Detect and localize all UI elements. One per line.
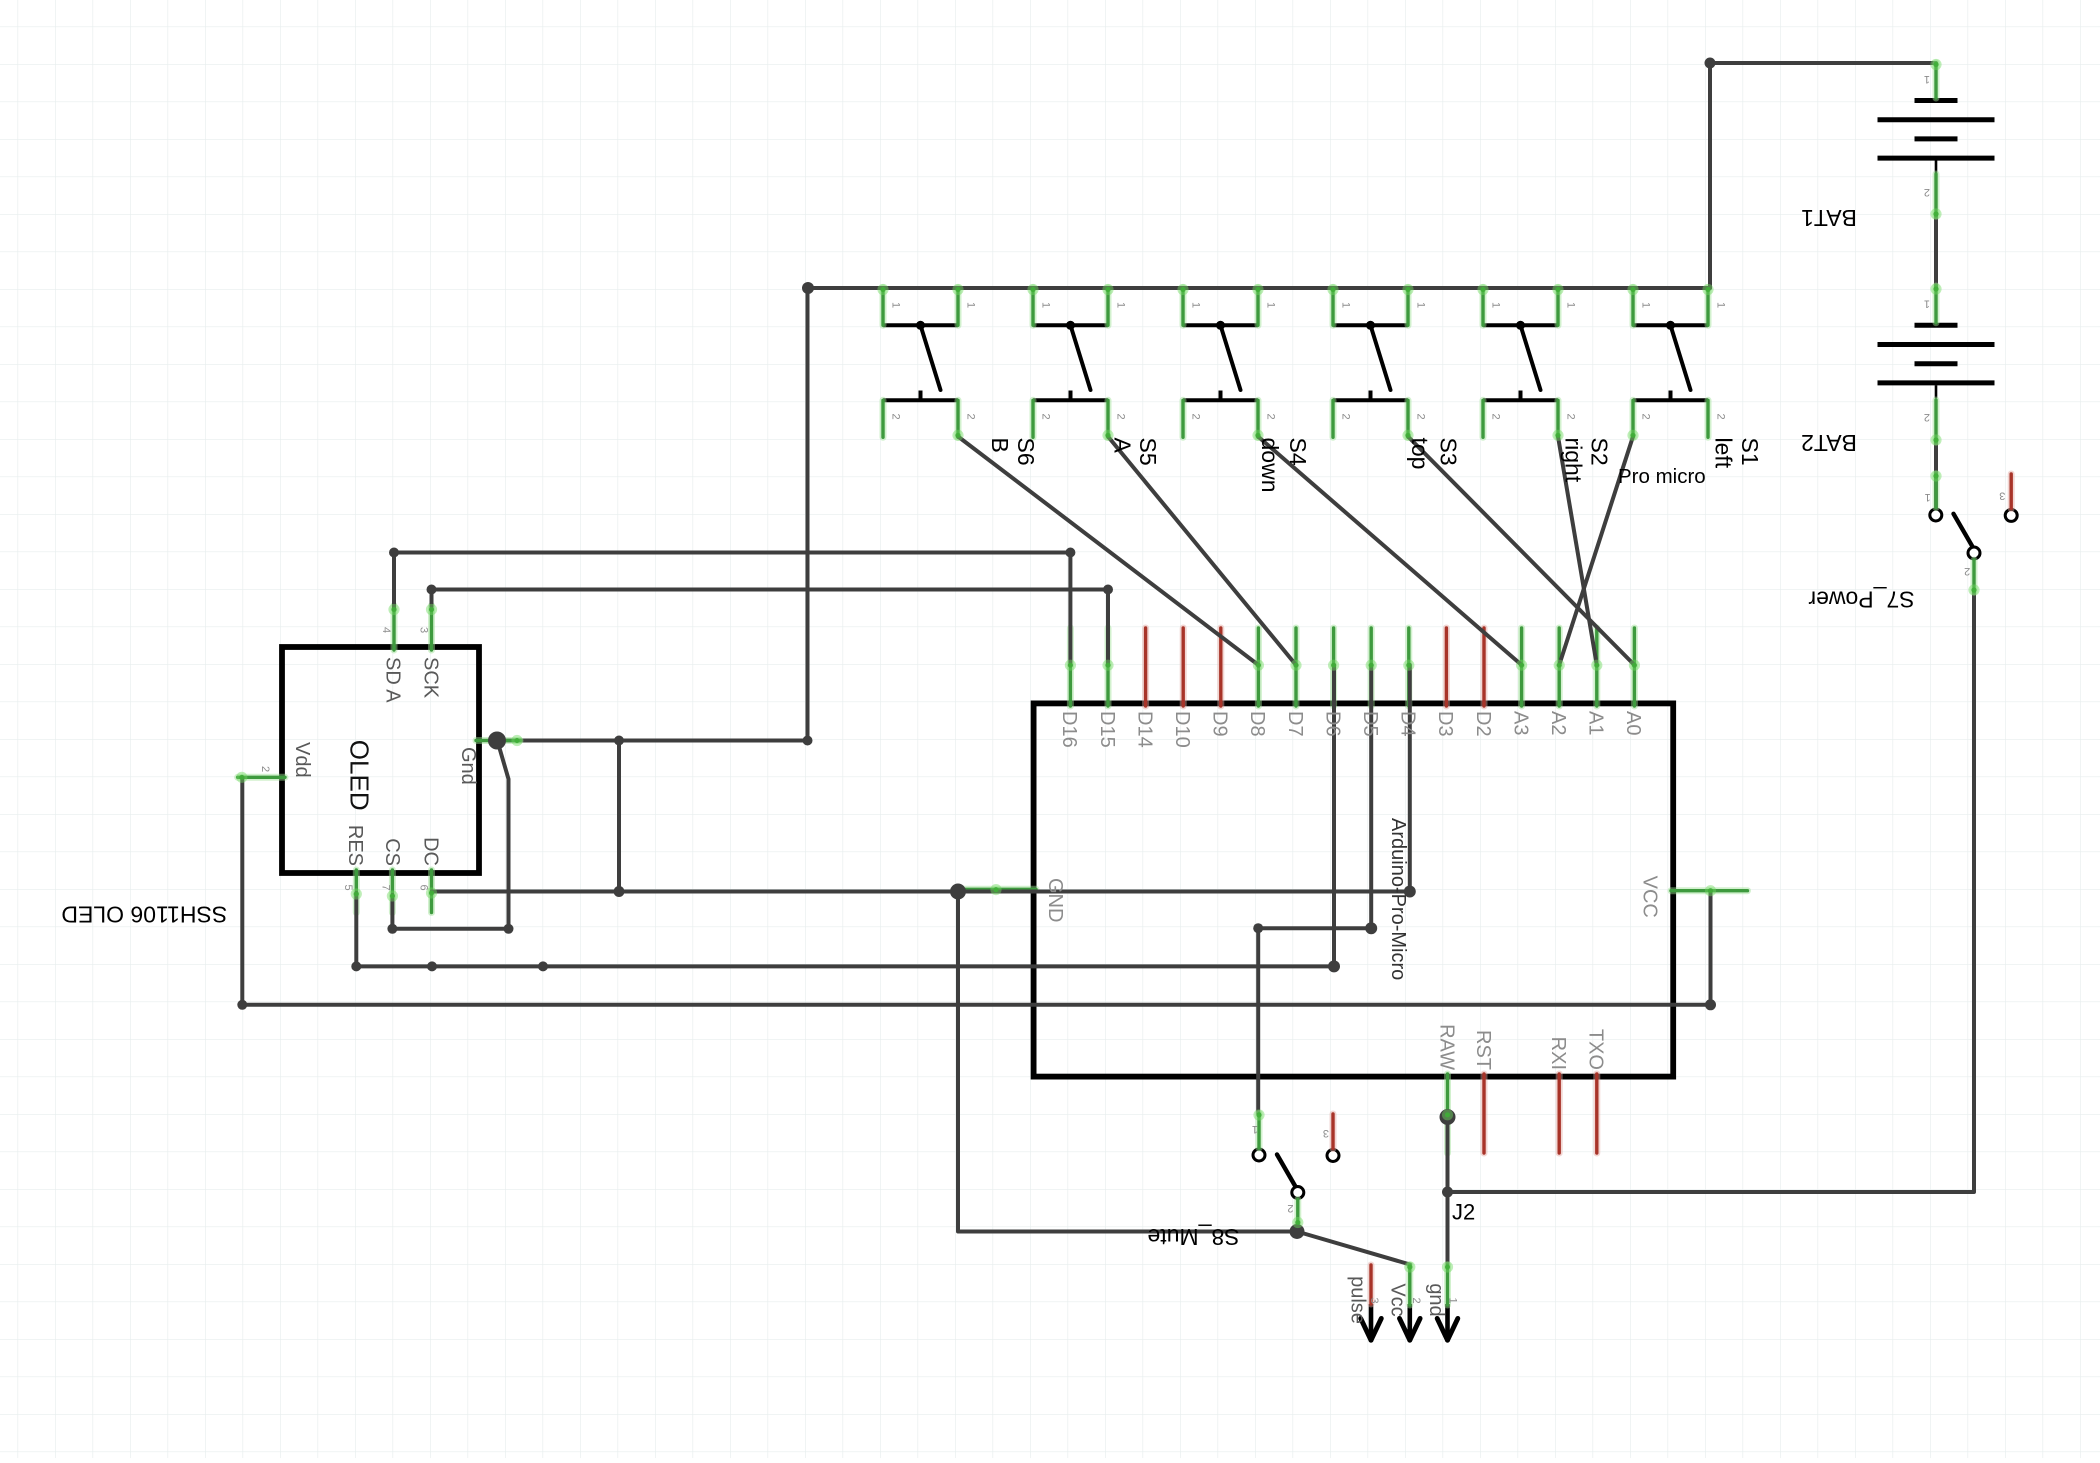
OLED pin SCK terminal glow [426,604,437,615]
pushbutton S5 pin 2 right [1105,400,1112,437]
svg-text:S1: S1 [1737,438,1763,466]
pushbutton S5 pin 2 right terminal glow [1102,430,1113,441]
pushbutton S2 pin 2 left [1480,400,1487,437]
junction: RAW pin node [1440,1109,1456,1125]
Arduino pin D5 [1368,628,1375,706]
svg-text:S2: S2 [1586,438,1612,466]
OLED pin CS terminal glow [387,890,398,901]
svg-text:2: 2 [1190,414,1202,420]
svg-text:D14: D14 [1133,711,1155,748]
svg-text:S4: S4 [1285,438,1311,466]
svg-text:1: 1 [1924,73,1930,85]
svg-text:5: 5 [342,885,354,891]
OLED pin SCK [428,606,435,651]
switch S7 pin 2 terminal glow [1968,584,1979,595]
Arduino pin A2 terminal glow [1554,660,1565,671]
Arduino pin D16 terminal glow [1065,660,1076,671]
svg-text:D7: D7 [1284,711,1306,737]
svg-text:D6: D6 [1321,711,1343,737]
pushbutton S3 pin 2 right [1405,400,1412,437]
svg-text:7: 7 [380,885,392,891]
svg-text:BAT2: BAT2 [1801,430,1857,456]
switch S8 pin 1 terminal glow [1253,1109,1264,1120]
Arduino pin GND [959,886,1036,893]
svg-text:2: 2 [1410,1297,1422,1303]
pushbutton S3 pin 1 right terminal glow [1402,284,1413,295]
svg-text:1: 1 [1040,302,1052,308]
wire: S3 pin2 to A0 [1408,437,1634,666]
pushbutton S4 pin 2 right [1255,400,1262,437]
Arduino pin D15 [1105,628,1112,706]
svg-text:left: left [1711,438,1737,469]
Arduino pin D7 [1293,628,1300,706]
pushbutton S1 pin 1 right [1705,288,1712,326]
OLED pin Gnd terminal glow [511,735,522,746]
pushbutton S6 body [883,321,958,401]
svg-text:D16: D16 [1058,711,1080,748]
wire: D4 vertical to GND net [1408,665,1412,892]
junction: D6 meets RES wire [1328,960,1340,972]
OLED pin RES terminal glow [351,888,362,899]
wire: OLED Vdd to VCC net [242,777,1710,1005]
svg-text:1: 1 [1715,302,1727,308]
svg-text:D3: D3 [1434,711,1456,737]
pushbutton S2 pin 1 right [1555,288,1562,326]
pushbutton S3 pin 2 left [1330,400,1337,437]
wire: S5 pin2 to D7 [1108,437,1296,666]
svg-text:A0: A0 [1622,711,1644,735]
svg-text:S8_Mute: S8_Mute [1147,1224,1239,1250]
OLED pin Gnd [476,737,520,744]
svg-text:1: 1 [1252,1123,1258,1135]
battery BAT2 pin 1 [1933,286,1940,323]
pushbutton S5 pin 1 left [1030,288,1037,326]
pushbutton S5 pin 1 right [1105,288,1112,326]
Arduino pin D5 terminal glow [1366,660,1377,671]
svg-text:2: 2 [1415,414,1427,420]
battery BAT1 pin 2 terminal glow [1930,208,1941,219]
switch S7_Power body [1930,509,2017,559]
pushbutton S6 pin 1 left [880,288,887,326]
wire: BAT2 pin2 to S7 pin1 [1934,442,1938,507]
Arduino pin D15 terminal glow [1102,660,1113,671]
pushbutton S2 pin 2 right [1555,400,1562,437]
svg-text:1: 1 [1640,302,1652,308]
svg-text:GND: GND [1044,878,1066,922]
pushbutton S3 pin 1 left [1330,288,1337,326]
pushbutton S3 pin 1 right [1405,288,1412,326]
wire: GND junction down-left to S8 pin2 junction [958,892,1297,1232]
Arduino pin A0 [1631,628,1638,706]
pushbutton S6 pin 1 left terminal glow [877,284,888,295]
pushbutton S3 pin 1 left terminal glow [1327,284,1338,295]
wire: D5 to S8 pin1 [1258,665,1371,1114]
wire: OLED RES to D6 [356,893,1334,966]
svg-text:S5: S5 [1135,438,1161,466]
OLED pin DC [428,870,435,913]
svg-text:D9: D9 [1209,711,1231,737]
Arduino pin D6 [1330,628,1337,706]
bend: RES wire point 1 [427,961,437,971]
Arduino pin D6 terminal glow [1328,660,1339,671]
svg-text:2: 2 [890,414,902,420]
OLED box [282,647,479,873]
svg-text:CS: CS [381,838,403,866]
switch S8 pin 3 (nc) [1330,1114,1337,1149]
bend: Vdd wire corner [237,1000,247,1010]
svg-text:B: B [987,438,1013,453]
Arduino pin A1 [1593,628,1600,706]
switch S8_Mute body [1253,1149,1339,1199]
svg-text:DC: DC [419,837,441,866]
wire: D6 vertical [1332,665,1336,966]
pushbutton S1 pin 1 left [1630,288,1637,326]
svg-text:gnd: gnd [1425,1283,1447,1316]
svg-text:A: A [1110,438,1136,454]
svg-text:SD A: SD A [382,657,404,703]
switch S8 pin 2 [1294,1200,1301,1225]
pushbutton S5 pin 1 left terminal glow [1027,284,1038,295]
svg-text:2: 2 [1265,414,1277,420]
bend: CS wire corner right [504,924,514,934]
battery BAT1 pin 1 [1933,63,1940,98]
svg-text:2: 2 [1340,414,1352,420]
wire: S4 pin2 to A3 [1258,437,1522,666]
svg-text:S6: S6 [1013,438,1039,466]
pushbutton S6 pin 1 right terminal glow [952,284,963,295]
svg-text:2: 2 [1924,411,1930,423]
pushbutton S1 pin 1 left terminal glow [1627,284,1638,295]
svg-text:D8: D8 [1246,711,1268,737]
pushbutton S3 body [1333,321,1408,401]
svg-text:D15: D15 [1096,711,1118,748]
Arduino pin A3 terminal glow [1516,660,1527,671]
svg-text:4: 4 [380,627,392,633]
OLED pin SDA terminal glow [388,604,399,615]
svg-text:D4: D4 [1397,711,1419,737]
pushbutton S4 pin 2 left [1180,400,1187,437]
Arduino pin VCC terminal glow [1705,885,1716,896]
svg-text:2: 2 [1565,414,1577,420]
svg-text:RST: RST [1472,1030,1494,1070]
Arduino pin RXI [1556,1074,1563,1153]
svg-text:1: 1 [890,302,902,308]
J2 pin 1 gnd terminal glow [1442,1261,1453,1272]
J2 pin 2 Vcc terminal glow [1404,1261,1415,1272]
svg-text:S7_Power: S7_Power [1808,587,1914,613]
pushbutton S6 pin 1 right [955,288,962,326]
Arduino pin D7 terminal glow [1290,660,1301,671]
svg-text:A1: A1 [1585,711,1607,735]
pushbutton S4 body [1183,321,1258,401]
svg-text:3: 3 [1323,1127,1329,1139]
svg-text:VCC: VCC [1638,876,1660,918]
svg-text:D2: D2 [1472,711,1494,737]
junction: S8 pin2 node [1290,1224,1305,1239]
Arduino-Pro-Micro box [1034,703,1674,1076]
svg-text:2: 2 [1115,414,1127,420]
junction: rail top-left corner [802,282,814,294]
battery BAT1 pin 2 [1933,174,1940,216]
svg-text:1: 1 [1415,302,1427,308]
Arduino pin A2 [1556,628,1563,706]
svg-text:RES: RES [344,825,366,866]
bend: Gnd net corner x807 [803,736,813,746]
pushbutton S1 pin 2 left [1630,400,1637,437]
pushbutton S4 pin 1 right terminal glow [1252,284,1263,295]
Arduino pin TXO [1593,1074,1600,1153]
junction: OLED Gnd node [488,732,506,750]
svg-text:D10: D10 [1171,711,1193,748]
pushbutton S2 pin 1 left terminal glow [1477,284,1488,295]
wire: switch top rail net [808,286,1710,290]
pushbutton S2 pin 2 right terminal glow [1552,430,1563,441]
bend: SDA wire corner left [389,548,399,558]
svg-text:1: 1 [1490,302,1502,308]
bend: Gnd net at x619 [614,736,624,746]
switch S7 pin 3 (nc) [2008,474,2015,509]
wire: OLED Gnd right then up to rail [497,288,808,741]
svg-text:2: 2 [1490,414,1502,420]
pushbutton S4 pin 2 right terminal glow [1252,430,1263,441]
svg-text:RAW: RAW [1435,1024,1457,1070]
J2 pin 2 Vcc [1406,1265,1413,1305]
svg-text:right: right [1560,438,1586,483]
pushbutton S1 body [1633,321,1708,401]
Arduino pin D16 [1067,628,1074,706]
svg-text:TXO: TXO [1585,1029,1607,1070]
svg-text:1: 1 [1340,302,1352,308]
switch S7 pin 1 lead [1933,474,1940,508]
pushbutton S3 pin 2 right terminal glow [1402,430,1413,441]
wire: Gnd branch down to GND net [617,741,621,892]
battery BAT2 pin 2 [1933,400,1940,442]
svg-text:SCK: SCK [419,657,441,699]
svg-text:3: 3 [418,627,430,633]
junction: D4 meets GND net [1404,886,1416,898]
svg-text:2: 2 [1640,414,1652,420]
svg-text:A3: A3 [1509,711,1531,735]
Arduino pin RAW [1444,1074,1451,1153]
junction: Gnd branch meets GND net [614,886,625,897]
svg-text:down: down [1257,438,1283,493]
svg-text:Arduino-Pro-Micro: Arduino-Pro-Micro [1387,818,1409,980]
svg-text:SSH1106 OLED: SSH1106 OLED [61,902,227,928]
pushbutton S2 pin 1 right terminal glow [1552,284,1563,295]
wire: S6 pin2 to D8 [958,437,1258,666]
pushbutton S6 pin 2 left [880,400,887,437]
svg-text:1: 1 [965,302,977,308]
Arduino pin D4 [1405,628,1412,706]
OLED pin RES [353,870,360,913]
svg-text:Vdd: Vdd [291,742,313,778]
battery BAT2 pin 2 terminal glow [1930,434,1941,445]
svg-text:D5: D5 [1359,711,1381,737]
J2 pin 2 arrow [1408,1304,1413,1339]
battery BAT2 plates [1878,325,1995,398]
pushbutton S6 pin 2 right terminal glow [952,430,963,441]
junction: D5 wire corner [1365,922,1377,934]
bend: RES wire point 2 [538,961,548,971]
bend: D5 wire corner [1253,923,1263,933]
svg-text:3: 3 [1999,490,2005,502]
J2 pin 3 pulse (nc) [1368,1265,1375,1304]
svg-text:BAT1: BAT1 [1801,205,1857,231]
svg-text:1: 1 [1265,302,1277,308]
Arduino pin D9 [1217,628,1224,706]
pushbutton S2 body [1483,321,1558,401]
Arduino pin A0 terminal glow [1629,660,1640,671]
svg-text:1: 1 [1925,491,1931,503]
Arduino pin VCC [1671,887,1748,894]
pushbutton S6 pin 2 right [955,400,962,437]
svg-text:J2: J2 [1452,1200,1475,1225]
Arduino pin RAW terminal glow [1442,1109,1453,1120]
svg-text:OLED: OLED [345,740,375,811]
Arduino pin D2 [1481,628,1488,706]
OLED pin DC terminal glow [426,887,437,898]
wire: BAT1 pin1 to rail corner [1710,63,1936,288]
svg-text:2: 2 [1287,1202,1293,1214]
svg-text:2: 2 [1040,414,1052,420]
svg-text:6: 6 [418,885,430,891]
pushbutton S1 pin 2 right [1705,400,1712,437]
battery BAT1 plates [1878,101,1995,174]
pushbutton S4 pin 1 left terminal glow [1177,284,1188,295]
wire: RAW junction down to J2 gnd pin [1446,1117,1450,1265]
svg-text:1: 1 [1115,302,1127,308]
bend: battery wire corner [1705,58,1716,69]
Arduino pin RST [1481,1074,1488,1153]
Arduino pin D8 [1255,628,1262,706]
svg-text:2: 2 [1715,414,1727,420]
svg-text:top: top [1407,438,1433,470]
svg-text:2: 2 [259,766,271,772]
switch S8 pin 1 [1256,1114,1263,1149]
OLED pin CS [389,870,396,913]
svg-text:A2: A2 [1547,711,1569,735]
bend: SCK wire corner left [427,585,437,595]
bend: VCC wire corner [1705,999,1716,1010]
switch S8 pin 2 terminal glow [1292,1217,1303,1228]
wire: BAT1 pin2 to BAT2 pin1 [1934,216,1938,288]
Arduino pin D14 [1142,628,1149,706]
bend: RES wire corner [351,961,361,971]
svg-text:1: 1 [1565,302,1577,308]
svg-text:Pro micro: Pro micro [1618,465,1706,488]
Arduino pin D3 [1443,628,1450,706]
pushbutton S5 body [1033,321,1108,401]
wire: S2 pin2 to A1 [1558,437,1597,666]
pushbutton S5 pin 2 left [1030,400,1037,437]
svg-text:S3: S3 [1435,438,1461,466]
pushbutton S1 pin 2 left terminal glow [1627,430,1638,441]
Arduino pin D10 [1180,628,1187,706]
junction: S7 wire meets RAW wire [1442,1187,1453,1198]
Arduino pin GND terminal glow [990,884,1001,895]
wire: OLED SCK to D15 [432,590,1109,666]
svg-text:1: 1 [1924,298,1930,310]
wire: S8 pin2 junction to J2 Vcc pin [1297,1232,1410,1265]
bend: SCK wire corner right [1103,585,1113,595]
Arduino pin A3 [1518,628,1525,706]
OLED pin Vdd [238,774,285,781]
svg-text:2: 2 [1964,565,1970,577]
OLED pin Vdd terminal glow [236,772,247,783]
bend: CS wire corner left [387,924,397,934]
pushbutton S2 pin 1 left [1480,288,1487,326]
svg-text:RXI: RXI [1547,1037,1569,1070]
wire: S7 pin2 down and left to J2 gnd net [1448,592,1975,1192]
battery BAT2 pin 1 terminal glow [1930,283,1941,294]
junction: GND pin node [950,884,966,900]
Arduino pin D8 terminal glow [1253,660,1264,671]
switch S7 pin 2 [1971,560,1978,592]
OLED pin SDA [391,606,398,651]
J2 pin 1 arrow [1445,1304,1450,1339]
svg-text:3: 3 [1368,1297,1380,1303]
svg-text:1: 1 [1190,302,1202,308]
pushbutton S4 pin 1 left [1180,288,1187,326]
bend: SDA wire corner right [1065,548,1075,558]
wire: OLED Gnd to CS loop [392,743,508,929]
battery BAT1 pin 1 terminal glow [1930,59,1941,70]
svg-text:Vcc: Vcc [1387,1283,1409,1316]
J2 pin 3 arrow [1369,1304,1374,1339]
svg-text:2: 2 [1924,186,1930,198]
svg-text:2: 2 [965,414,977,420]
svg-text:Gnd: Gnd [457,747,479,785]
wire: GND net horizontal (OLED DC - GND pin - D4) [432,890,1410,894]
switch S7 pin 1 lead terminal glow [1930,470,1941,481]
Arduino pin A1 terminal glow [1591,660,1602,671]
Arduino pin D4 terminal glow [1403,660,1414,671]
wire: OLED SDA to D16 [394,553,1070,666]
J2 pin 1 gnd [1444,1265,1451,1305]
svg-text:1: 1 [1446,1297,1458,1303]
pushbutton S4 pin 1 right [1255,288,1262,326]
wire: S1 pin2 to A2 [1559,437,1633,666]
svg-text:pulse: pulse [1347,1276,1369,1324]
pushbutton S5 pin 1 right terminal glow [1102,284,1113,295]
pushbutton S1 pin 1 right terminal glow [1702,284,1713,295]
